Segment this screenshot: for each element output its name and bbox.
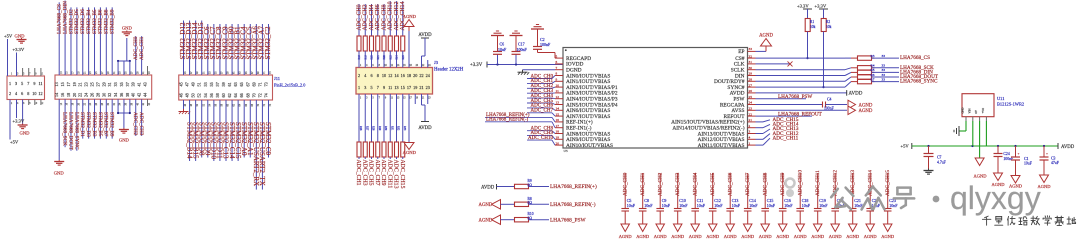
svg-text:23: 23	[426, 85, 430, 90]
ground AGND (C18)	[796, 224, 805, 232]
net ADC_CH5	[371, 157, 373, 159]
svg-text:AGND: AGND	[741, 234, 755, 239]
net STM32_B8	[105, 7, 107, 75]
svg-text:LHA7668_REFIN(-): LHA7668_REFIN(-)	[486, 118, 529, 123]
net ADC_CH2	[135, 99, 137, 136]
svg-text:+5V: +5V	[10, 140, 19, 145]
ground AGND (C22)	[866, 224, 875, 232]
resistor R25	[401, 36, 405, 51]
svg-text:35: 35	[119, 82, 124, 86]
svg-text:22: 22	[419, 73, 423, 78]
svg-text:15: 15	[556, 112, 560, 116]
svg-text:29: 29	[749, 72, 753, 76]
wire stubs	[22, 68, 24, 76]
svg-text:10: 10	[32, 91, 36, 96]
svg-text:19: 19	[72, 82, 77, 86]
svg-text:R4: R4	[871, 64, 875, 68]
net STM32_A0	[243, 100, 245, 158]
svg-text:LHA7668_CS: LHA7668_CS	[900, 55, 930, 61]
svg-text:ADC_CH3: ADC_CH3	[361, 160, 367, 186]
header J3 Header 12X2H	[356, 68, 433, 95]
svg-text:32: 32	[107, 93, 112, 97]
svg-text:ADC_CH4: ADC_CH4	[693, 172, 699, 196]
svg-text:STM32_B9: STM32_B9	[109, 112, 115, 137]
svg-text:AGND: AGND	[864, 234, 878, 239]
svg-text:STM32_D3: STM32_D3	[85, 112, 91, 137]
svg-text:C24: C24	[1003, 152, 1009, 156]
resistor R4 33	[756, 69, 846, 71]
svg-text:+3.3V: +3.3V	[470, 63, 483, 68]
svg-text:12: 12	[38, 91, 42, 96]
net STM32_B4	[88, 7, 90, 75]
svg-text:ADC_CH10: ADC_CH10	[388, 1, 394, 30]
svg-text:68: 68	[245, 93, 250, 97]
svg-text:AGND: AGND	[829, 234, 843, 239]
svg-text:B1212S-1WR2: B1212S-1WR2	[997, 102, 1024, 107]
net STM32_B14	[189, 100, 191, 161]
svg-text:39: 39	[131, 82, 136, 86]
resistor R6 33	[756, 80, 846, 82]
net ADC_CH11	[756, 144, 764, 146]
svg-text:AGND: AGND	[859, 109, 873, 114]
svg-text:AGND: AGND	[776, 234, 790, 239]
wire VIN	[972, 121, 974, 146]
net ADC_CH3	[141, 99, 143, 136]
svg-text:33: 33	[882, 73, 886, 77]
svg-text:+3.3V: +3.3V	[13, 119, 25, 124]
net STM32_USART2_TX	[261, 100, 263, 190]
svg-text:49: 49	[191, 82, 196, 86]
svg-text:ADC_CH1: ADC_CH1	[640, 172, 646, 196]
svg-text:27: 27	[95, 82, 100, 86]
net STM32_B5	[94, 7, 96, 75]
svg-text:ADC_CH5: ADC_CH5	[710, 172, 716, 196]
net STM32_D13	[189, 20, 191, 75]
svg-text:R32: R32	[397, 126, 400, 131]
svg-text:11: 11	[388, 85, 392, 90]
svg-text:56: 56	[209, 93, 214, 97]
svg-text:AGND: AGND	[759, 234, 773, 239]
svg-text:100nF: 100nF	[540, 42, 551, 47]
svg-text:57: 57	[215, 82, 220, 86]
svg-text:R33: R33	[403, 126, 406, 131]
net ADC_CH8	[383, 4, 385, 36]
svg-text:+VO: +VO	[982, 108, 985, 114]
resistor R5 33	[756, 75, 846, 77]
svg-text:16: 16	[556, 118, 560, 122]
svg-text:3: 3	[749, 130, 751, 134]
svg-text:ADC_CH7: ADC_CH7	[530, 109, 553, 114]
net ADC_CH4	[371, 4, 373, 36]
svg-text:ADC_CH7: ADC_CH7	[745, 172, 751, 196]
net LHA7668_REFIN(-) (IC)	[485, 121, 552, 123]
resistor R8 0R	[515, 202, 529, 206]
svg-text:24: 24	[749, 101, 753, 105]
connector J12	[7, 76, 45, 100]
net LHA7668_DIN	[872, 71, 900, 73]
net ADC_CH13	[756, 133, 764, 135]
svg-text:ADC_CH6: ADC_CH6	[728, 172, 734, 196]
capacitor C21 10nF (ADC_CH13)	[852, 173, 854, 208]
svg-text:STM32_B3: STM32_B3	[91, 112, 97, 137]
svg-text:10nF: 10nF	[679, 203, 688, 208]
resistor R10 0R	[515, 218, 529, 222]
ground AGND (C5)	[621, 224, 630, 232]
svg-text:C3: C3	[1051, 156, 1056, 160]
svg-text:R6: R6	[871, 73, 875, 77]
net STM32_D9	[207, 100, 209, 158]
net LHA7668_SYNC	[76, 99, 78, 151]
svg-text:26: 26	[749, 89, 753, 93]
svg-text:ADC_CH3: ADC_CH3	[675, 172, 681, 196]
svg-text:10nF: 10nF	[662, 203, 671, 208]
svg-text:9: 9	[383, 85, 385, 90]
svg-text:62: 62	[227, 93, 232, 97]
svg-text:23: 23	[749, 107, 753, 111]
svg-text:ADC_CH12: ADC_CH12	[394, 1, 400, 30]
svg-text:9: 9	[33, 81, 35, 86]
net STM32_B3	[94, 99, 96, 138]
ground AGND (C24)	[994, 173, 1003, 181]
svg-text:1: 1	[749, 141, 751, 145]
no-connect CLK	[756, 63, 791, 65]
svg-text:STM32_B5: STM32_B5	[97, 112, 103, 137]
svg-text:18: 18	[407, 73, 411, 78]
svg-text:ADC_CH11: ADC_CH11	[386, 160, 392, 189]
capacitor C20 10nF (ADC_CH12)	[834, 173, 836, 208]
svg-text:6: 6	[21, 91, 23, 96]
svg-text:ADC_CH13: ADC_CH13	[393, 160, 399, 189]
resistor R22	[382, 36, 386, 51]
power AVDD (IC)	[756, 92, 847, 94]
resistor R3 33	[756, 57, 846, 59]
svg-text:72: 72	[257, 93, 262, 97]
svg-text:5: 5	[370, 85, 372, 90]
svg-text:73: 73	[263, 82, 268, 86]
net STM32_D14	[195, 20, 197, 75]
resistor R24	[395, 36, 399, 51]
svg-text:AGND: AGND	[724, 234, 738, 239]
capacitor C4 100nF	[756, 104, 823, 106]
net STM32_C4	[243, 24, 245, 75]
svg-text:0V: 0V	[975, 110, 978, 113]
net ADC_CH7	[377, 157, 379, 159]
svg-text:33: 33	[749, 47, 753, 51]
svg-text:ADC_CH0: ADC_CH0	[623, 172, 629, 196]
svg-text:2: 2	[9, 91, 11, 96]
net STM32_D1	[82, 99, 84, 138]
svg-text:LHA7668_DOUT: LHA7668_DOUT	[67, 112, 73, 151]
svg-text:AVDD: AVDD	[418, 33, 432, 38]
net LHA7668_DOUT	[70, 99, 72, 151]
svg-text:AGND: AGND	[706, 234, 720, 239]
svg-text:ADC_CH10: ADC_CH10	[798, 170, 804, 196]
resistor R33	[402, 94, 404, 142]
svg-text:ADC_CH5: ADC_CH5	[368, 160, 374, 186]
svg-text:R7: R7	[871, 77, 875, 81]
svg-text:U5: U5	[564, 149, 568, 153]
capacitor C10 10nF (ADC_CH3)	[677, 173, 679, 208]
svg-text:11: 11	[556, 89, 560, 93]
svg-text:21: 21	[419, 85, 423, 90]
svg-text:100nF: 100nF	[517, 47, 528, 52]
svg-text:GND: GND	[962, 107, 965, 113]
svg-text:AGND: AGND	[811, 234, 825, 239]
svg-text:10nF: 10nF	[889, 203, 898, 208]
dc-dc converter U11 B1212S-1WR2	[962, 94, 994, 117]
caption 千里优璐教学基地	[982, 216, 991, 225]
svg-text:AVDD: AVDD	[849, 92, 863, 97]
svg-text:25: 25	[749, 95, 753, 99]
ground AGND (C16)	[778, 224, 787, 232]
capacitor C16 10nF (ADC_CH9)	[782, 173, 784, 208]
resistor R32	[396, 94, 398, 142]
svg-text:10k: 10k	[810, 25, 816, 29]
svg-text:38: 38	[125, 93, 130, 97]
ground AGND (C3)	[1040, 175, 1049, 183]
svg-text:ADC_CH4: ADC_CH4	[369, 4, 375, 30]
net ADC_CH15	[402, 157, 404, 159]
net ADC_CH7	[527, 112, 552, 114]
svg-text:63: 63	[233, 82, 238, 86]
svg-text:C6: C6	[500, 42, 505, 47]
net LHA7668_PSW	[529, 219, 550, 221]
svg-text:5: 5	[21, 81, 23, 86]
svg-text:STM32_B7: STM32_B7	[103, 112, 109, 137]
wire stub	[427, 60, 429, 68]
net ADC_CH2	[527, 87, 552, 89]
wire stub	[147, 99, 149, 106]
svg-text:10nF: 10nF	[784, 203, 793, 208]
net STM32_B5	[99, 99, 101, 138]
svg-text:AIN10/IOUT/VBIAS: AIN10/IOUT/VBIAS	[566, 143, 613, 149]
net ADC_CH8	[527, 130, 552, 132]
ground AGND (C20)	[831, 224, 840, 232]
svg-text:STM32_C2: STM32_C2	[264, 26, 272, 60]
svg-text:19: 19	[413, 85, 417, 90]
net STM32_D10	[213, 100, 215, 161]
capacitor C17 100nF	[515, 54, 517, 64]
svg-text:LHA7668_REFIN(-): LHA7668_REFIN(-)	[550, 201, 596, 208]
svg-text:17: 17	[407, 85, 411, 90]
svg-text:C4: C4	[827, 97, 832, 101]
svg-text:14: 14	[556, 107, 560, 111]
capacitor C8 10nF (ADC_CH1)	[642, 173, 644, 208]
net STM32_D2	[70, 7, 72, 75]
net STM32_C2	[267, 24, 269, 75]
ground GND (U11)	[965, 121, 967, 131]
svg-text:+5V: +5V	[901, 144, 910, 149]
net LHA7668_REFIN(+)	[529, 186, 550, 188]
capacitor C9 10nF (ADC_CH2)	[659, 173, 661, 208]
ground AGND (C14)	[743, 224, 752, 232]
svg-text:33: 33	[882, 68, 886, 72]
svg-text:67: 67	[245, 82, 250, 86]
svg-text:61: 61	[227, 82, 232, 86]
svg-text:28: 28	[95, 93, 100, 97]
capacitor C23 10nF (ADC_CH15)	[887, 173, 889, 208]
resistor R28	[371, 94, 373, 142]
svg-text:31: 31	[107, 82, 112, 86]
svg-text:10: 10	[556, 83, 560, 87]
svg-text:ADC_CH10: ADC_CH10	[528, 136, 554, 141]
svg-text:7: 7	[377, 85, 379, 90]
svg-text:10nF: 10nF	[714, 203, 723, 208]
ground AGND (C23)	[883, 224, 892, 232]
net STM32_D8	[201, 100, 203, 158]
net STM32_C6	[207, 24, 209, 75]
svg-text:GND: GND	[15, 34, 26, 39]
svg-text:R1: R1	[810, 20, 814, 24]
svg-text:37: 37	[125, 82, 130, 86]
net STM32_C15	[237, 100, 239, 161]
svg-text:J11: J11	[274, 76, 280, 81]
svg-text:27: 27	[749, 83, 753, 87]
net ADC_CH3	[527, 92, 552, 94]
svg-text:66: 66	[239, 93, 244, 97]
capacitor C6 10uF	[497, 54, 499, 64]
svg-text:65: 65	[239, 82, 244, 86]
svg-text:4.7uF: 4.7uF	[937, 161, 946, 165]
svg-text:3: 3	[364, 85, 366, 90]
svg-text:51: 51	[197, 82, 202, 86]
svg-text:AGND: AGND	[654, 234, 668, 239]
svg-text:ADC_CH9: ADC_CH9	[380, 160, 386, 186]
svg-text:LHA7668_PSW: LHA7668_PSW	[778, 94, 812, 100]
net STM32_C9	[225, 24, 227, 75]
svg-text:28: 28	[749, 78, 753, 82]
svg-text:10nF: 10nF	[749, 203, 758, 208]
svg-text:22: 22	[749, 112, 753, 116]
svg-text:29: 29	[101, 82, 106, 86]
net ADC_CH3	[364, 157, 366, 159]
capacitor C1 10uF	[1015, 146, 1017, 157]
resistor R7 33	[756, 86, 846, 88]
resistor R27	[364, 94, 366, 142]
svg-text:33: 33	[882, 77, 886, 81]
svg-text:16: 16	[60, 93, 65, 97]
net ADC_CH9	[383, 157, 385, 159]
svg-text:R5: R5	[871, 68, 875, 72]
svg-text:60: 60	[221, 93, 226, 97]
svg-text:+3.3V: +3.3V	[13, 47, 25, 52]
svg-text:AGND: AGND	[671, 234, 685, 239]
svg-text:AGND: AGND	[794, 234, 808, 239]
svg-text:AGND: AGND	[479, 219, 493, 224]
svg-text:R27: R27	[365, 126, 368, 131]
ground AGND (C13)	[726, 224, 735, 232]
resistor R20	[370, 36, 374, 51]
net ADC_CH6	[377, 4, 379, 36]
svg-text:AIN11/IOUT/VBIAS: AIN11/IOUT/VBIAS	[698, 143, 745, 149]
net STM32_D5	[76, 7, 78, 75]
svg-text:R28: R28	[372, 126, 375, 131]
capacitor C22 10nF (ADC_CH14)	[869, 173, 871, 208]
op-amp U5 ADC IC	[563, 48, 748, 149]
svg-text:11: 11	[38, 81, 42, 86]
ground AGND (C11)	[691, 224, 700, 232]
svg-text:GND: GND	[122, 26, 133, 31]
svg-text:VIN: VIN	[968, 109, 971, 114]
svg-text:ADC_CH1: ADC_CH1	[355, 160, 361, 186]
svg-text:10nF: 10nF	[819, 203, 828, 208]
net ADC_CH6	[527, 107, 552, 109]
svg-text:46: 46	[179, 93, 184, 97]
svg-text:18: 18	[66, 93, 71, 97]
svg-text:+: +	[1046, 152, 1048, 156]
net STM32_B9	[111, 99, 113, 138]
ground GND bottom-left	[22, 124, 24, 126]
net LHA7668_PSW (IC)	[756, 98, 807, 100]
svg-text:ADC_CH15: ADC_CH15	[885, 170, 891, 196]
ground AGND (C21)	[848, 224, 857, 232]
ground AGND (C19)	[813, 224, 822, 232]
svg-text:69: 69	[251, 82, 256, 86]
svg-text:AGND: AGND	[759, 34, 773, 39]
resistor R9 0R	[515, 184, 529, 188]
ground AGND (AVSS)	[756, 109, 848, 111]
svg-text:LHA7668_SYNC: LHA7668_SYNC	[73, 112, 79, 150]
svg-text:C1: C1	[1024, 157, 1029, 161]
svg-text:2: 2	[749, 124, 751, 128]
svg-text:EP: EP	[738, 49, 744, 55]
net LHA7668_CS	[872, 57, 900, 59]
svg-text:ADC_CH3: ADC_CH3	[138, 112, 144, 136]
net ADC_CH10	[389, 1, 391, 36]
svg-text:36: 36	[119, 93, 124, 97]
svg-text:PinH_2x15xB_2.0: PinH_2x15xB_2.0	[274, 83, 305, 88]
svg-text:ADC_CH15: ADC_CH15	[399, 160, 405, 189]
svg-text:8: 8	[556, 72, 558, 76]
net ADC_CH0	[358, 4, 360, 36]
svg-text:22: 22	[78, 93, 83, 97]
svg-text:AGND: AGND	[846, 234, 860, 239]
svg-text:qlyxgy: qlyxgy	[950, 180, 1041, 216]
svg-text:33: 33	[882, 54, 886, 58]
wire	[7, 39, 9, 76]
svg-text:55: 55	[209, 82, 214, 86]
net LHA7668_DOUT	[872, 76, 900, 78]
wire +VO	[985, 121, 987, 146]
svg-text:30: 30	[749, 66, 753, 70]
svg-text:10nF: 10nF	[644, 203, 653, 208]
svg-text:AGND: AGND	[689, 234, 703, 239]
svg-text:R2: R2	[826, 20, 830, 24]
net STM32_B7	[105, 99, 107, 138]
ground AGND (header bottom)	[408, 94, 410, 142]
svg-text:2: 2	[358, 73, 360, 78]
svg-text:19: 19	[556, 136, 560, 140]
svg-text:59: 59	[221, 82, 226, 86]
svg-text:+3.3V: +3.3V	[797, 4, 809, 9]
ground GND (J11 pin 46)	[183, 100, 185, 109]
net STM32_USART2_RX	[255, 100, 257, 190]
svg-text:10nF: 10nF	[697, 203, 706, 208]
svg-text:58: 58	[215, 93, 220, 97]
svg-text:13: 13	[54, 82, 59, 86]
svg-text:45: 45	[179, 82, 184, 86]
wire stubs header unused	[414, 94, 416, 104]
svg-text:ADC_CH2: ADC_CH2	[363, 4, 369, 30]
net STM32_D3	[88, 99, 90, 138]
watermark text 公众号	[831, 188, 853, 210]
svg-text:41: 41	[137, 82, 142, 86]
svg-text:R29: R29	[378, 126, 381, 131]
svg-text:5: 5	[556, 54, 558, 58]
svg-text:ADC_CH7: ADC_CH7	[374, 160, 380, 186]
svg-text:3: 3	[15, 81, 17, 86]
net ADC_CH11	[389, 157, 391, 159]
